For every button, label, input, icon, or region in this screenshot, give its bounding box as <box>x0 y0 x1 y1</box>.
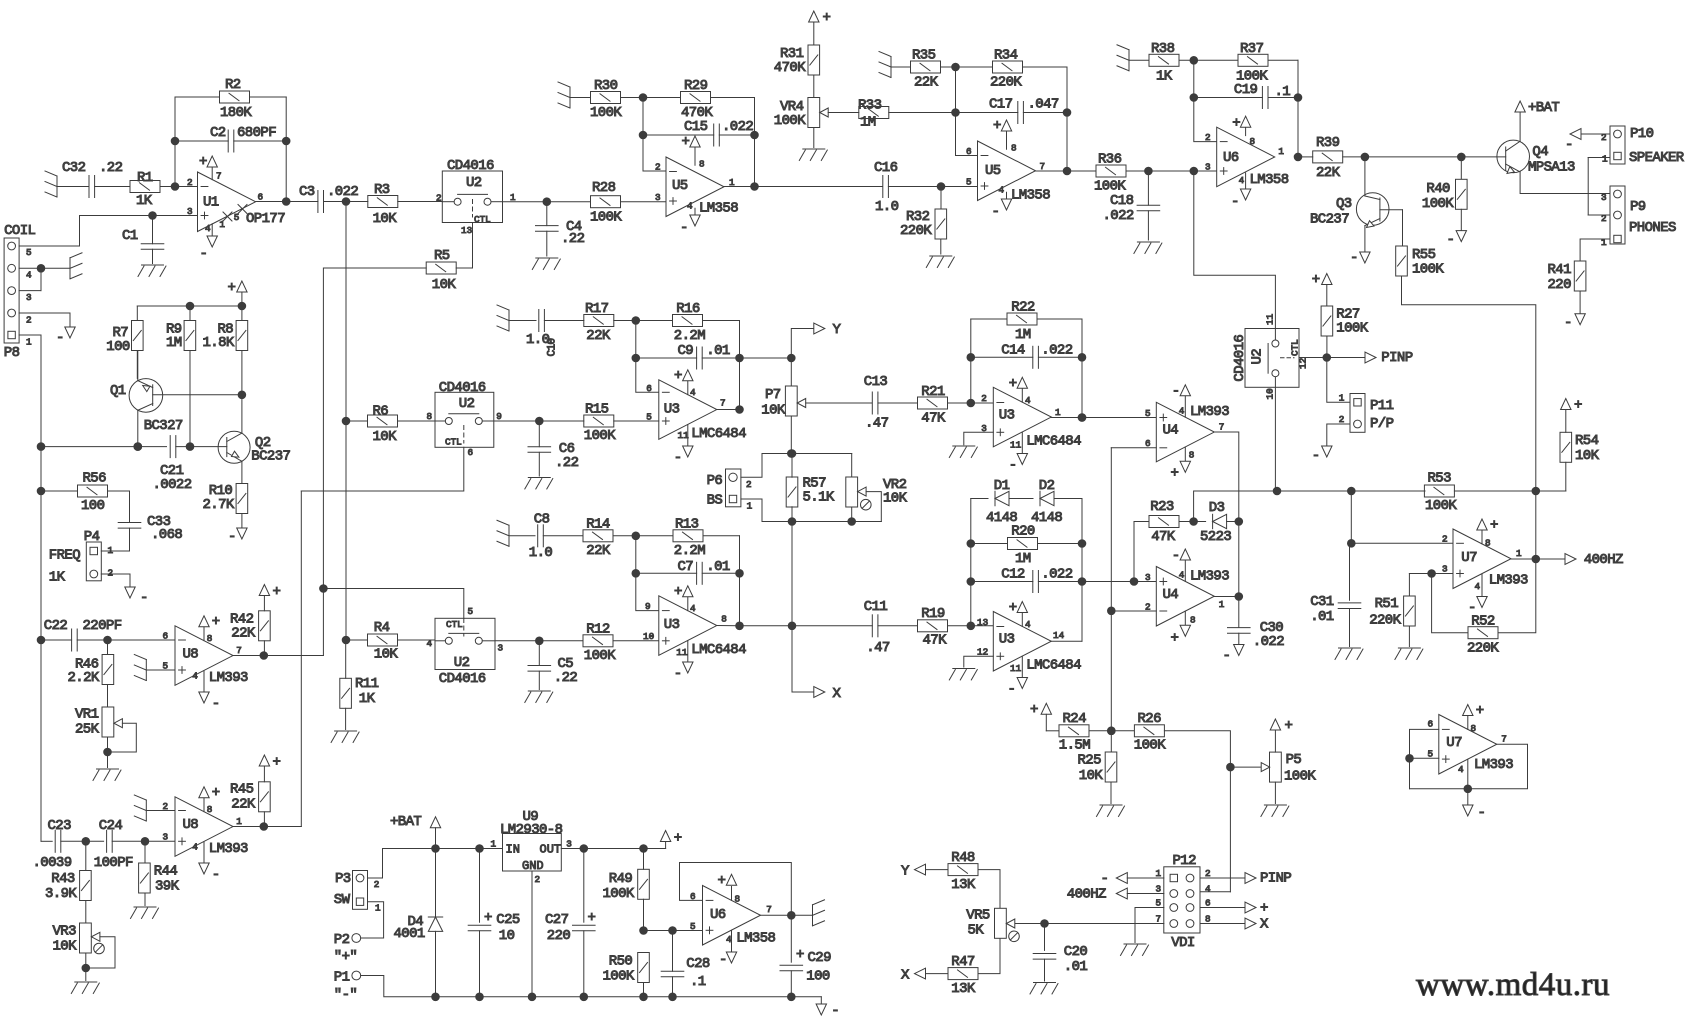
wire out to Y node <box>740 354 796 362</box>
wire U6b feedback <box>680 863 792 916</box>
wire U4a out down <box>1214 432 1242 525</box>
svg-text:+: + <box>199 154 207 170</box>
svg-text:R28: R28 <box>592 180 616 196</box>
connector P3 SW <box>334 871 381 914</box>
svg-text:+: + <box>1490 518 1498 534</box>
svg-text:C12: C12 <box>1001 567 1025 583</box>
svg-text:R15: R15 <box>585 402 609 418</box>
capacitor C13 <box>864 374 889 432</box>
wire U5a pin2 <box>643 170 666 172</box>
op-amp U3b LMC6484 <box>981 376 1081 474</box>
wire C24 to U8b pin3 <box>112 838 175 846</box>
wire R41 down <box>1579 291 1581 314</box>
svg-text:8: 8 <box>427 411 433 422</box>
wire gnd to C10 <box>509 320 536 322</box>
resistor R39 <box>1313 135 1343 181</box>
svg-text:-: - <box>1009 458 1017 474</box>
wire C12 right to U4b pin3 <box>1038 581 1156 583</box>
svg-text:10K: 10K <box>1575 448 1600 464</box>
potentiometer VR4 <box>774 98 828 130</box>
wire P12 pin4 riser <box>1229 767 1231 892</box>
svg-text:R47: R47 <box>951 954 975 970</box>
wire U3b feedback left vertical <box>967 319 975 403</box>
arrow X right at P12 <box>1245 917 1269 933</box>
svg-text:U1: U1 <box>203 195 219 211</box>
potentiometer VR2 <box>846 454 908 522</box>
svg-text:.01: .01 <box>706 559 730 575</box>
svg-text:U2: U2 <box>459 396 475 412</box>
resistor R37 <box>1236 41 1268 85</box>
resistor R43 <box>45 841 91 923</box>
svg-text:R37: R37 <box>1240 41 1264 57</box>
wire P3 pin1 to P2 <box>361 902 384 938</box>
svg-text:6: 6 <box>1428 719 1434 730</box>
svg-text:R5: R5 <box>434 248 450 264</box>
resistor R29 <box>681 78 714 121</box>
resistor R1 <box>130 170 160 209</box>
plus arrow above R27 <box>1312 272 1332 306</box>
svg-text:100K: 100K <box>1425 498 1457 514</box>
svg-text:LM393: LM393 <box>1190 404 1229 420</box>
svg-text:3: 3 <box>655 192 661 203</box>
svg-text:R41: R41 <box>1548 262 1572 278</box>
svg-text:11: 11 <box>676 647 688 658</box>
svg-text:3: 3 <box>26 292 32 303</box>
svg-text:.22: .22 <box>554 670 578 686</box>
wire battery rail <box>383 845 503 853</box>
wire P12 pin7 wiper <box>1015 920 1164 928</box>
diode D2 4148 <box>1031 478 1062 526</box>
svg-text:X: X <box>833 686 842 702</box>
resistor R28 <box>590 180 622 226</box>
svg-text:CTL: CTL <box>1290 339 1301 356</box>
svg-text:C19: C19 <box>1234 82 1258 98</box>
resistor R30 <box>590 78 622 121</box>
wire R35 to R34 <box>941 63 993 71</box>
wire U5a feedback right vertical <box>751 98 759 191</box>
svg-text:.068: .068 <box>151 527 182 543</box>
svg-text:2: 2 <box>1205 868 1211 879</box>
svg-text:R54: R54 <box>1575 433 1599 449</box>
wire R53 node to U7a pin2 <box>1348 491 1454 547</box>
svg-text:10K: 10K <box>761 403 786 419</box>
svg-text:10: 10 <box>499 928 515 944</box>
wire U7b feedback <box>1410 744 1528 792</box>
svg-text:+: + <box>1171 466 1179 482</box>
svg-text:U5: U5 <box>672 178 688 194</box>
wire C16 to U5b pin5 <box>888 183 977 191</box>
wire C32 to R1 <box>95 186 130 188</box>
wire C3 to R3 <box>324 198 368 206</box>
svg-text:4: 4 <box>1025 619 1031 630</box>
capacitor C2 <box>210 125 276 152</box>
wire P12 pin5 gnd <box>1135 908 1164 943</box>
wire U8b out up to U2b ctl <box>300 491 302 827</box>
ground (power) at C18 <box>1134 242 1162 254</box>
svg-text:-: - <box>992 204 1000 220</box>
svg-text:-: - <box>1447 232 1455 248</box>
svg-text:4: 4 <box>1205 884 1211 895</box>
minus arrow at rail end <box>816 997 839 1019</box>
svg-text:100K: 100K <box>1134 738 1166 754</box>
svg-text:U3: U3 <box>664 617 680 633</box>
svg-text:-: - <box>1008 682 1016 698</box>
regulator U9 LM2930-8 <box>491 809 572 885</box>
svg-text:1: 1 <box>1602 154 1608 165</box>
wire C12 left <box>971 581 1033 583</box>
svg-text:Y: Y <box>833 322 842 338</box>
capacitor C3 <box>299 184 358 213</box>
capacitor C20 <box>1033 924 1087 982</box>
wire R29 right lead <box>711 97 755 99</box>
resistor R38 <box>1149 41 1179 85</box>
svg-text:+BAT: +BAT <box>390 814 421 830</box>
wire gnd to R30 <box>570 97 591 99</box>
wire P4 pin2 <box>101 574 130 587</box>
svg-text:X: X <box>1260 917 1269 933</box>
svg-text:P1: P1 <box>334 970 350 986</box>
wire VR2 wiper loop <box>866 492 881 522</box>
resistor R50 <box>603 953 650 997</box>
resistor R49 <box>603 849 650 931</box>
wire gnd to R38 <box>1129 59 1149 61</box>
svg-text:P10: P10 <box>1630 126 1654 142</box>
svg-text:CD4016: CD4016 <box>1232 335 1248 382</box>
resistor R25 <box>1078 731 1117 804</box>
svg-text:P2: P2 <box>334 932 350 948</box>
svg-text:OP177: OP177 <box>246 211 285 227</box>
resistor R56 <box>41 471 130 515</box>
resistor R8 <box>203 306 248 395</box>
wire U3d out <box>1051 640 1082 642</box>
svg-text:47K: 47K <box>923 633 948 649</box>
svg-text:2: 2 <box>535 874 541 885</box>
op-amp U4b LM393 <box>1145 548 1229 647</box>
wire U5b feedback left vertical <box>956 67 978 156</box>
wire U3c out <box>717 625 740 627</box>
svg-text:22K: 22K <box>231 626 256 642</box>
wire Q3 base to R55 <box>1402 210 1404 246</box>
svg-text:1: 1 <box>375 903 381 914</box>
resistor R53 <box>1424 471 1457 515</box>
capacitor C29 <box>780 915 831 997</box>
svg-text:U4: U4 <box>1163 587 1179 603</box>
svg-text:LM358: LM358 <box>736 931 775 947</box>
wire R39 to Q4 base <box>1343 153 1506 161</box>
svg-text:4: 4 <box>1458 764 1464 775</box>
svg-text:13: 13 <box>461 225 472 236</box>
svg-text:VR3: VR3 <box>53 924 77 940</box>
wire C21 right <box>176 443 227 451</box>
wire U7a pin3 <box>1409 570 1453 578</box>
svg-text:COIL: COIL <box>4 223 35 239</box>
wire U5a out <box>724 186 882 188</box>
svg-text:.22: .22 <box>99 160 123 176</box>
svg-text:+: + <box>1285 718 1293 734</box>
wire U3c feedback left vertical <box>632 536 659 611</box>
svg-text:8: 8 <box>1485 538 1491 549</box>
svg-text:+: + <box>212 785 220 801</box>
capacitor C6 <box>528 421 579 476</box>
wire R27 node to P11 pin1 <box>1327 358 1350 404</box>
wire C32 left <box>57 186 89 188</box>
svg-text:+: + <box>484 910 492 926</box>
svg-text:+: + <box>1030 702 1038 718</box>
svg-text:C25: C25 <box>496 912 520 928</box>
wire R5 right <box>456 267 472 269</box>
svg-text:4: 4 <box>192 671 198 682</box>
wire R34 right lead <box>1023 66 1068 68</box>
wire R2 left lead <box>175 96 220 98</box>
connector pin P1 <box>334 970 361 1004</box>
svg-text:-: - <box>1565 137 1573 153</box>
capacitor C14 <box>1001 343 1072 369</box>
wire R17 to R16 <box>614 317 673 325</box>
svg-text:1K: 1K <box>136 193 153 209</box>
svg-text:400HZ: 400HZ <box>1067 887 1106 903</box>
wire P1 to minus rail <box>361 976 436 997</box>
svg-text:1M: 1M <box>1015 551 1031 567</box>
svg-text:C31: C31 <box>1310 594 1334 610</box>
svg-text:1: 1 <box>1278 146 1284 157</box>
potentiometer VR1 <box>75 707 122 738</box>
resistor R22 <box>1007 300 1037 344</box>
op-amp U3a LMC6484 <box>646 368 746 466</box>
ground (power) at P5 <box>1261 805 1289 817</box>
svg-text:D2: D2 <box>1039 478 1055 494</box>
ground (power) at VR1 <box>93 769 121 781</box>
svg-text:5223: 5223 <box>1200 529 1231 545</box>
svg-text:2.2K: 2.2K <box>68 670 100 686</box>
capacitor C30 <box>1228 597 1285 651</box>
svg-text:1M: 1M <box>860 115 876 131</box>
svg-text:-: - <box>228 529 236 545</box>
ground (signal) at R30 <box>558 82 570 108</box>
svg-text:R19: R19 <box>921 606 945 622</box>
svg-text:4: 4 <box>1179 406 1185 417</box>
resistor R4 <box>346 620 435 663</box>
svg-text:11: 11 <box>678 430 690 441</box>
svg-text:5: 5 <box>468 606 474 617</box>
svg-text:CD4016: CD4016 <box>439 380 486 396</box>
svg-text:1: 1 <box>26 337 32 348</box>
svg-text:U2: U2 <box>454 655 470 671</box>
svg-text:LM393: LM393 <box>209 670 248 686</box>
svg-text:LM393: LM393 <box>209 841 248 857</box>
wire U9 gnd <box>531 871 533 997</box>
svg-text:R49: R49 <box>609 871 633 887</box>
svg-text:8: 8 <box>1011 143 1017 154</box>
svg-text:2: 2 <box>981 393 987 404</box>
svg-text:U4: U4 <box>1163 423 1179 439</box>
wire U7b pins56 <box>1406 729 1439 788</box>
wire Q2 collector up <box>241 395 243 433</box>
svg-text:LM393: LM393 <box>1489 573 1528 589</box>
wire P10 pin1 <box>1588 157 1610 159</box>
svg-text:47K: 47K <box>921 411 946 427</box>
svg-text:R4: R4 <box>374 620 390 636</box>
wire R14 to R13 <box>613 532 673 540</box>
ground (power) at R32 <box>926 256 954 268</box>
svg-text:5: 5 <box>966 177 972 188</box>
op-amp U5a LM358 <box>655 134 738 236</box>
svg-text:6: 6 <box>966 146 972 157</box>
wire P12 pin8 <box>1200 923 1245 925</box>
wire rail to R4 node <box>342 421 350 644</box>
arrow 400HZ right <box>1565 552 1623 568</box>
svg-text:C23: C23 <box>48 818 72 834</box>
svg-text:C10: C10 <box>547 338 559 356</box>
wire U5a feedback left vertical <box>639 98 647 172</box>
svg-text:.022: .022 <box>1253 634 1284 650</box>
svg-text:8: 8 <box>1471 723 1477 734</box>
svg-text:1: 1 <box>236 816 242 827</box>
svg-text:4: 4 <box>690 603 696 614</box>
svg-text:3.9K: 3.9K <box>45 886 77 902</box>
svg-text:3: 3 <box>1145 572 1151 583</box>
op-amp U8b LM393 <box>163 785 249 883</box>
resistor R57 <box>786 454 835 522</box>
svg-text:100: 100 <box>81 498 105 514</box>
svg-text:3: 3 <box>1442 564 1448 575</box>
svg-text:.01: .01 <box>1310 609 1334 625</box>
wire U4b out <box>1214 596 1239 598</box>
svg-text:4: 4 <box>1025 395 1031 406</box>
svg-text:3: 3 <box>498 643 504 654</box>
svg-text:7: 7 <box>1040 161 1046 172</box>
svg-text:22K: 22K <box>586 543 611 559</box>
wire +rail above R7 R9 R8 <box>137 302 245 310</box>
wire speaker to phones pin2 <box>1587 158 1589 216</box>
svg-text:3: 3 <box>1205 162 1211 173</box>
svg-text:7: 7 <box>720 398 726 409</box>
svg-text:C3: C3 <box>299 184 315 200</box>
ground (power) at C5 <box>525 691 553 703</box>
wire C8 to R14 <box>543 535 583 537</box>
svg-text:C22: C22 <box>44 618 68 634</box>
wire U2a out <box>503 198 591 206</box>
svg-text:4: 4 <box>427 638 433 649</box>
wire R33 to C17 row <box>889 109 1018 117</box>
resistor R13 <box>673 517 705 560</box>
wire R5 left to U8a out <box>323 268 426 656</box>
wire U1 output <box>256 201 318 203</box>
svg-text:R1: R1 <box>137 170 153 186</box>
svg-text:C8: C8 <box>534 512 550 528</box>
svg-text:8: 8 <box>1250 136 1256 147</box>
svg-text:FREQ: FREQ <box>49 548 80 564</box>
svg-text:"+": "+" <box>334 949 357 965</box>
capacitor C8 <box>529 512 553 562</box>
svg-text:C11: C11 <box>864 599 888 615</box>
ground (power) at C1 <box>138 265 166 277</box>
svg-text:4: 4 <box>999 185 1005 196</box>
svg-text:680PF: 680PF <box>237 125 276 141</box>
svg-text:2: 2 <box>374 879 380 890</box>
connector P4 FREQ <box>49 529 114 586</box>
wire U8a out <box>233 652 323 660</box>
capacitor C7 <box>678 559 730 584</box>
svg-text:2.7K: 2.7K <box>203 497 235 513</box>
capacitor C21 <box>153 436 192 493</box>
op-amp U5b LM358 <box>966 118 1050 220</box>
resistor R32 <box>900 187 947 255</box>
svg-text:C15: C15 <box>684 119 708 135</box>
svg-text:+: + <box>212 614 220 630</box>
capacitor C17 <box>989 97 1059 124</box>
svg-text:U2: U2 <box>466 175 482 191</box>
wire U7a out <box>1511 558 1565 560</box>
svg-text:C20: C20 <box>1064 944 1088 960</box>
svg-text:470K: 470K <box>774 60 806 76</box>
plus arrow at R24 <box>1030 702 1052 731</box>
svg-text:U8: U8 <box>183 817 199 833</box>
ground (power) at U3b pin3 <box>949 446 977 458</box>
svg-text:+: + <box>674 584 682 600</box>
svg-text:Q1: Q1 <box>110 383 126 399</box>
svg-text:U7: U7 <box>1446 735 1462 751</box>
minus arrow at P10 <box>1565 129 1581 153</box>
svg-text:1.0: 1.0 <box>875 199 899 215</box>
svg-text:1: 1 <box>747 501 753 512</box>
wire R52 to out <box>1499 555 1540 633</box>
svg-text:C32: C32 <box>62 160 86 176</box>
svg-text:R39: R39 <box>1316 135 1340 151</box>
svg-text:CD4016: CD4016 <box>439 671 486 687</box>
wire C2 right lead <box>234 140 286 142</box>
minus arrow at R10 <box>228 528 247 545</box>
svg-text:1K: 1K <box>49 570 66 586</box>
resistor R36 <box>1094 152 1126 195</box>
svg-text:U8: U8 <box>183 647 199 663</box>
wire U2c ctl pin5 <box>320 585 464 619</box>
svg-text:8: 8 <box>1190 615 1196 626</box>
svg-text:9: 9 <box>645 601 651 612</box>
resistor R9 <box>166 306 196 447</box>
wire rail from C3 node down <box>342 202 350 425</box>
wire P8 pin3 <box>19 268 41 290</box>
svg-text:-: - <box>831 1003 839 1019</box>
arrow Y left at R48 <box>901 864 948 880</box>
wire C7 right <box>702 572 739 574</box>
capacitor C23 <box>33 818 72 871</box>
ground (power) at R11 <box>331 731 359 743</box>
wire R19 to U3d pin13 <box>948 622 994 630</box>
svg-text:1: 1 <box>219 219 225 230</box>
svg-text:C1: C1 <box>122 228 138 244</box>
wire R47 to VR5 <box>978 939 1000 974</box>
op-amp U7b LM393 <box>1428 703 1514 789</box>
connector P12 VDI <box>1156 853 1212 951</box>
svg-text:R16: R16 <box>676 301 700 317</box>
wire U2a ctl pin13 <box>472 223 474 269</box>
svg-text:-: - <box>1564 315 1572 331</box>
ground (power) at C6 <box>525 478 553 490</box>
svg-text:-: - <box>56 330 64 346</box>
wire R38 to R37 <box>1179 57 1238 65</box>
resistor R2 <box>220 77 253 121</box>
svg-text:12: 12 <box>1298 358 1309 369</box>
svg-text:1: 1 <box>1055 407 1061 418</box>
svg-text:R53: R53 <box>1428 471 1452 487</box>
wire VR1 down <box>107 737 109 768</box>
wire R53 to R54 <box>1454 487 1565 495</box>
analog switch U2c CD4016 <box>435 606 503 687</box>
svg-text:100K: 100K <box>584 648 616 664</box>
connector P8 COIL <box>4 223 36 361</box>
potentiometer P7 <box>761 358 805 419</box>
diode D3 5223 <box>1200 500 1231 545</box>
